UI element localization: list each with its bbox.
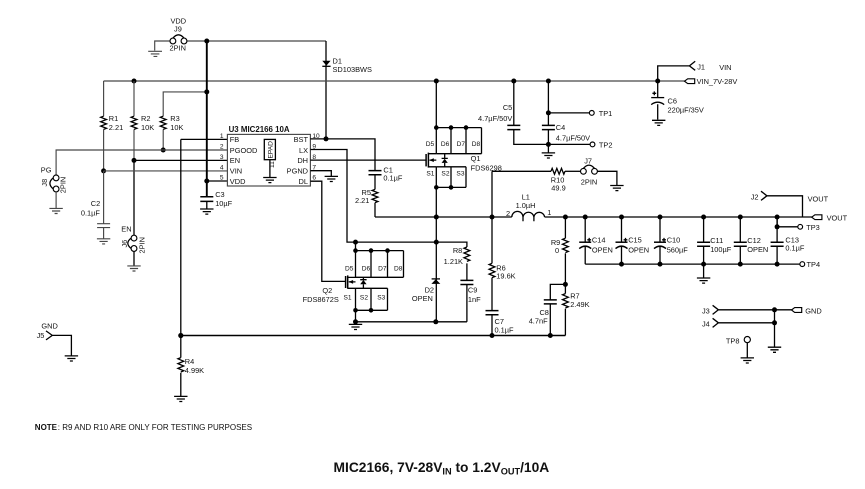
svg-text:OPEN: OPEN [412,294,433,303]
svg-text:1.21K: 1.21K [444,257,463,266]
svg-text:PGND: PGND [287,167,308,176]
ground PGND [325,176,338,181]
capacitor C11 [697,217,732,264]
svg-text:D7: D7 [378,265,387,272]
svg-text:2: 2 [220,144,224,151]
svg-text:1.0µH: 1.0µH [516,201,536,210]
svg-text:C2: C2 [91,199,100,208]
svg-text:J4: J4 [702,319,710,328]
wire Q2 source to ground rail [353,310,358,324]
svg-text:D8: D8 [394,265,403,272]
connector J3 [702,305,792,315]
ground C6 [652,120,665,125]
wire PGOOD (pin2) [56,150,227,175]
capacitor C6 [651,81,704,120]
capacitor C9 [460,280,481,321]
ground J9 [148,51,162,56]
svg-text:2.21: 2.21 [355,196,369,205]
svg-text:D8: D8 [472,141,481,148]
connector J1 [658,61,732,81]
svg-text:4.7µF/50V: 4.7µF/50V [556,133,590,142]
resistor R5 [355,188,378,217]
svg-text:TP2: TP2 [599,141,613,150]
ground J7 [610,186,623,191]
test point TP4 [777,260,820,269]
svg-text:1nF: 1nF [468,295,481,304]
svg-text:PGOOD: PGOOD [230,146,258,155]
net tag VOUT [812,214,848,223]
svg-text:J9: J9 [174,25,182,34]
capacitor C7 [486,311,515,336]
wire VIN rail [104,79,685,84]
svg-text:J2: J2 [751,193,759,202]
jumper J7 [581,156,617,186]
capacitor C8 [529,284,566,335]
svg-text:J6: J6 [120,240,129,248]
svg-text:DH: DH [297,156,308,165]
svg-text:PG: PG [41,165,52,174]
capacitor C14 [579,217,613,264]
svg-text:TP1: TP1 [599,109,613,118]
svg-text:DL: DL [299,177,308,186]
svg-text:R7: R7 [570,291,579,300]
ground J8 [49,208,62,213]
svg-text:C15: C15 [628,236,642,245]
ground EPAD [263,178,276,183]
svg-text:220µF/35V: 220µF/35V [668,106,704,115]
transistor Q1 FDS6298 [426,81,502,190]
svg-text:R2: R2 [141,114,150,123]
svg-text:J5: J5 [37,331,45,340]
svg-text:D6: D6 [362,265,371,272]
svg-text:0.1µF: 0.1µF [81,209,101,218]
svg-text:C14: C14 [592,236,606,245]
net tag VIN_7V-28V [685,77,738,86]
note text [35,423,252,432]
capacitor C5 [478,81,548,144]
svg-text:49.9: 49.9 [551,184,565,193]
ground J3/J4 [768,347,781,352]
svg-text:D7: D7 [457,141,466,148]
svg-text:FB: FB [230,135,240,144]
svg-text:J8: J8 [40,179,49,187]
svg-text:VIN: VIN [230,167,242,176]
svg-text:3: 3 [220,154,224,161]
svg-text:10K: 10K [170,123,183,132]
capacitor C13 [771,217,805,264]
wire J3/J4 ground column [774,310,776,347]
ground J6 [127,266,140,271]
wire R10/R6 column [491,171,493,263]
ground C3 [200,209,213,214]
svg-text:560µF: 560µF [667,245,689,254]
capacitor C12 [734,217,768,264]
svg-text:100µF: 100µF [710,245,732,254]
test point TP8 [726,336,751,357]
svg-text:4: 4 [220,165,224,172]
resistor R6 [489,263,516,310]
wire Q1 source to switch node [434,187,439,321]
jumper J9 [170,17,187,53]
resistor R9 [551,217,568,287]
test point TP3 [777,217,820,232]
wire VDD vertical [204,41,227,184]
svg-text:0.1µF: 0.1µF [785,244,805,253]
svg-text:2: 2 [506,209,510,218]
svg-text:OPEN: OPEN [628,245,649,254]
svg-text:10µF: 10µF [215,199,232,208]
ground output rail [697,278,710,283]
svg-text:C6: C6 [668,97,677,106]
connector J2 [751,191,829,217]
capacitor C15 [616,217,650,264]
transistor Q2 FDS8672S [303,240,404,313]
svg-text:VIN_7V-28V: VIN_7V-28V [697,77,738,86]
svg-text:VDD: VDD [230,177,246,186]
svg-text:S2: S2 [441,171,449,178]
svg-text:4.7nF: 4.7nF [529,317,548,326]
wire PGND (pin7) [310,171,331,177]
svg-text:C12: C12 [747,236,761,245]
svg-text:J7: J7 [584,156,592,165]
resistor R2 [131,81,154,163]
svg-text:C10: C10 [667,236,681,245]
svg-text:S3: S3 [377,294,385,301]
svg-text:R8: R8 [453,246,462,255]
test point TP1 [546,109,612,118]
resistor R1 [101,81,123,173]
svg-text:R1: R1 [109,114,118,123]
svg-text:2PIN: 2PIN [137,237,146,253]
resistor R8 [444,246,470,280]
wire LX (pin9) [310,150,467,248]
capacitor C4 [542,81,590,153]
svg-text:4.7µF/50V: 4.7µF/50V [478,114,512,123]
connector J5 [37,321,72,355]
svg-text:J3: J3 [702,306,710,315]
svg-text:0: 0 [555,246,559,255]
connector J4 [702,318,777,328]
title [334,460,550,477]
svg-text:BST: BST [294,135,309,144]
svg-text:D6: D6 [441,141,450,148]
svg-text:Q1: Q1 [471,154,481,163]
ground C2 [97,239,110,244]
resistor R7 [563,284,590,335]
svg-text:D2: D2 [425,285,434,294]
svg-text:LX: LX [299,146,308,155]
svg-text:TP3: TP3 [806,223,820,232]
svg-text:0.1µF: 0.1µF [495,325,515,334]
svg-text:EN: EN [230,156,240,165]
inductor L1 [506,193,551,222]
svg-text:SD103BWS: SD103BWS [333,65,373,74]
capacitor C2 [81,171,110,239]
capacitor C1 [369,166,403,190]
wire VIN (pin4) [104,170,228,172]
svg-text:EN: EN [121,224,131,233]
svg-text:VOUT: VOUT [827,214,848,223]
wire DH (pin8) [310,159,425,161]
svg-text:S2: S2 [360,294,368,301]
svg-text:C11: C11 [710,236,723,245]
wire FB rail [178,333,565,338]
svg-text:U3 MIC2166 10A: U3 MIC2166 10A [229,125,290,134]
svg-text:TP4: TP4 [807,260,821,269]
jumper J6 [120,224,146,265]
svg-text:VOUT: VOUT [808,195,829,204]
resistor R10 [492,168,581,192]
svg-text:J1: J1 [697,63,705,72]
svg-text:2.49K: 2.49K [570,300,589,309]
svg-text:S1: S1 [344,294,352,301]
ground R4 [174,396,187,401]
svg-text:OPEN: OPEN [747,245,768,254]
svg-text:0.1µF: 0.1µF [383,174,403,183]
svg-text:C4: C4 [556,123,565,132]
wire EN (pin3) [134,159,227,161]
svg-text:19.6K: 19.6K [496,271,515,280]
resistor R4 [178,336,204,397]
diode D1 [322,41,372,139]
svg-text:Q2: Q2 [322,286,332,295]
test point TP2 [548,141,612,150]
svg-text:EPAD: EPAD [267,141,274,159]
svg-text:2PIN: 2PIN [581,177,597,186]
wire switch node rail [375,215,512,220]
svg-text:2PIN: 2PIN [59,177,68,193]
svg-text:C3: C3 [215,190,224,199]
svg-text:OPEN: OPEN [592,245,613,254]
svg-text:1: 1 [547,208,551,217]
wire VOUT rail [545,215,813,220]
svg-text:10K: 10K [141,123,154,132]
svg-text:5: 5 [220,175,224,182]
diode D2 [412,279,440,303]
jumper J8 [40,165,68,208]
svg-text:TP8: TP8 [726,336,740,345]
capacitor C3 [200,181,232,209]
resistor R3 [160,89,209,152]
wire ground rail [356,319,467,324]
svg-text:: R9 AND R10 ARE ONLY FOR TEST: : R9 AND R10 ARE ONLY FOR TESTING PURPOS… [58,423,252,432]
ground J5 [65,356,78,361]
wire DL (pin6) [310,181,345,281]
svg-text:GND: GND [41,321,57,330]
svg-text:S1: S1 [426,171,434,178]
svg-text:R3: R3 [170,114,179,123]
IC U3 MIC2166 [220,125,320,186]
svg-text:FDS8672S: FDS8672S [303,295,339,304]
ground Q2 [349,324,362,329]
wire output caps bottom rail [585,262,779,278]
ground C4 [542,153,555,158]
wire VDD top rail [155,39,326,51]
net tag GND [792,307,822,316]
svg-text:GND: GND [805,307,821,316]
svg-text:VIN: VIN [719,63,731,72]
wire EN column [133,160,135,235]
svg-text:D5: D5 [426,141,435,148]
svg-text:2PIN: 2PIN [170,44,186,53]
svg-text:2.21: 2.21 [109,123,123,132]
svg-text:NOTE: NOTE [35,423,58,432]
svg-text:4.99K: 4.99K [185,366,204,375]
EPAD pin 11 [264,139,276,177]
svg-text:R4: R4 [185,357,194,366]
svg-text:C5: C5 [503,103,512,112]
wire FB (pin1) [180,139,182,335]
svg-text:D5: D5 [345,265,354,272]
svg-text:S3: S3 [456,171,464,178]
svg-text:1: 1 [220,133,224,140]
capacitor C10 [654,217,688,264]
ground TP8 [741,358,754,363]
wire BST (pin10) [310,136,375,170]
svg-text:C9: C9 [468,285,477,294]
